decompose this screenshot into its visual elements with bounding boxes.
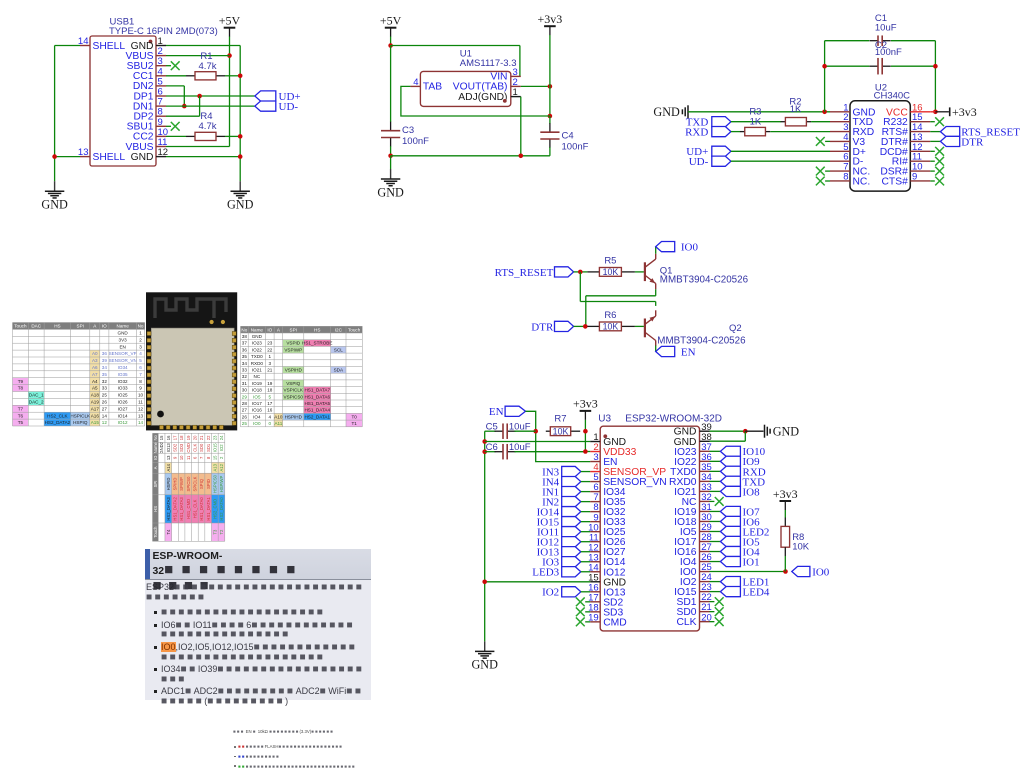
wire right GND rail	[239, 46, 241, 182]
no-connect RI# pin11	[930, 157, 944, 166]
capacitor C1	[870, 35, 891, 46]
no-connect NC pin7	[816, 167, 830, 176]
svg-text:A10: A10	[274, 414, 283, 419]
pin 14 SHELL of USB1	[78, 36, 125, 52]
svg-text:TYPE-C 16PIN 2MD(073): TYPE-C 16PIN 2MD(073)	[109, 26, 218, 37]
svg-text:NC: NC	[682, 497, 697, 508]
svg-text:A4: A4	[92, 379, 98, 384]
pin 13 SHELL of USB1	[78, 147, 125, 163]
svg-text:SHELL: SHELL	[93, 152, 126, 163]
svg-text:T3: T3	[212, 529, 217, 535]
pin 5 DN2 of USB1	[133, 76, 166, 92]
pin 10 IO25 of U3	[588, 522, 626, 538]
wire GND to pin1	[688, 111, 830, 113]
resistor R3	[740, 127, 770, 135]
svg-text:4.7k: 4.7k	[199, 121, 217, 132]
svg-text:GND: GND	[118, 331, 129, 336]
svg-text:SD1: SD1	[676, 597, 696, 608]
svg-text:VSPICLK: VSPICLK	[284, 388, 304, 393]
junction TAB loop	[548, 114, 553, 119]
svg-text:IO2: IO2	[542, 587, 559, 599]
no-connect pin9 SBU1	[166, 122, 180, 131]
no-connect CTS# pin9	[930, 177, 944, 186]
svg-text:6: 6	[139, 365, 142, 370]
label U3 value ESP32-WROOM-32D	[625, 413, 722, 424]
ground (USB right)	[227, 181, 254, 211]
svg-text:GND: GND	[674, 437, 697, 448]
wire C3 bottom	[390, 146, 392, 156]
svg-text:HSPICS0: HSPICS0	[212, 474, 217, 493]
net flag IO8 (U3 pin 33)	[710, 486, 761, 498]
svg-text:IO17: IO17	[674, 537, 697, 548]
label USB1 refdes	[110, 17, 135, 28]
svg-text:0: 0	[269, 421, 272, 426]
svg-text:23: 23	[267, 341, 273, 346]
pin 3 RXD of U2	[830, 122, 874, 138]
svg-text:SPI: SPI	[153, 481, 158, 488]
svg-text:HSPICLK: HSPICLK	[70, 413, 91, 418]
pin 15 GND of U3	[588, 572, 626, 588]
svg-text:21: 21	[267, 368, 273, 373]
svg-text:IO23: IO23	[252, 341, 262, 346]
wire cap bottom rail	[825, 65, 936, 67]
connector USB1 TYPE-C body	[90, 36, 156, 166]
wire cross B (RTS to Q2 emitter)	[580, 272, 655, 306]
wire RXD to R3	[731, 131, 740, 133]
net flag UD- (CH340)	[689, 156, 731, 168]
net flag IO5 (U3 pin 28)	[710, 536, 761, 548]
net flag IN2 (U3 pin 7)	[542, 497, 590, 509]
wire C3 top	[390, 46, 392, 123]
svg-text:17: 17	[267, 401, 273, 406]
svg-text:10K: 10K	[792, 542, 810, 553]
label R3	[749, 106, 761, 117]
pin 13 IO14 of U3	[588, 552, 626, 568]
resistor R2	[781, 118, 811, 126]
svg-text:EN: EN	[119, 344, 125, 349]
net flag IO3 (U3 pin 13)	[542, 557, 590, 569]
svg-text:I2C: I2C	[335, 327, 343, 332]
svg-text:21: 21	[199, 435, 204, 440]
junction +5V node	[388, 43, 393, 48]
svg-text:DTR: DTR	[531, 321, 554, 333]
svg-text:HS1_CMD: HS1_CMD	[186, 499, 191, 519]
wire pin4 CC1 to R1	[166, 75, 186, 77]
wire +5V to VIN	[391, 46, 520, 77]
svg-text:A18: A18	[91, 393, 100, 398]
svg-text:IO17: IO17	[252, 401, 262, 406]
svg-text:+5V: +5V	[380, 14, 402, 28]
svg-text:33: 33	[102, 386, 108, 391]
label Q1 value MMBT3904-C20526	[660, 274, 749, 285]
svg-text:HS: HS	[314, 327, 320, 332]
svg-text:IO: IO	[267, 327, 272, 332]
svg-text:Name: Name	[153, 442, 158, 454]
net flag RTS_RESET	[940, 127, 1020, 139]
svg-text:IO25: IO25	[118, 393, 128, 398]
net flag IN4 (U3 pin 5)	[542, 476, 590, 488]
net flag IO11 (U3 pin 10)	[537, 527, 590, 539]
svg-text:IO2: IO2	[680, 577, 697, 588]
pin 12 IO27 of U3	[588, 542, 626, 558]
wire DTR# to flag	[930, 140, 940, 142]
no-connect pin 21 SD0	[710, 607, 724, 616]
svg-text:IO8: IO8	[743, 486, 761, 498]
svg-text:DAC_2: DAC_2	[29, 400, 44, 405]
svg-text:DTR#: DTR#	[881, 137, 908, 148]
svg-text:SPI: SPI	[77, 324, 84, 329]
pin 9 SBU1 of USB1	[127, 117, 166, 133]
svg-text:22: 22	[267, 347, 273, 352]
svg-text:CLK: CLK	[192, 444, 197, 452]
svg-text:SD2: SD2	[173, 443, 178, 452]
no-connect NC pin8	[816, 177, 830, 186]
wire pin2 VBUS	[166, 55, 230, 57]
svg-text:C3: C3	[402, 125, 414, 136]
label Q1	[660, 266, 673, 277]
resistor R8 (vertical)	[781, 526, 790, 556]
svg-text:10K: 10K	[603, 267, 619, 277]
svg-text:14: 14	[912, 122, 923, 133]
svg-text:AMS1117-3.3: AMS1117-3.3	[460, 58, 517, 69]
svg-text:26: 26	[242, 414, 248, 419]
svg-text:SDA: SDA	[334, 368, 344, 373]
svg-text:A13: A13	[212, 463, 217, 471]
junction RTS_RESET	[578, 270, 583, 275]
net flag IO10 (U3 pin 37)	[710, 446, 766, 458]
junction pin1 gnd	[482, 439, 487, 444]
label U1 value AMS1117-3.3	[460, 58, 517, 69]
svg-text:GND: GND	[252, 334, 263, 339]
svg-text:A17: A17	[91, 406, 100, 411]
svg-text:15: 15	[212, 455, 217, 460]
no-connect V3 pin4	[816, 137, 830, 146]
svg-text:MMBT3904-C20526: MMBT3904-C20526	[657, 336, 746, 347]
wire UD- to D-	[731, 160, 830, 162]
net flag RXD	[685, 127, 731, 139]
pin 6 DP1 of USB1	[133, 87, 166, 103]
net flag TXD (U3 pin 34)	[710, 476, 766, 488]
no-connect DCD# pin12	[930, 147, 944, 156]
svg-text:SPIQ: SPIQ	[199, 478, 204, 489]
svg-text:28: 28	[242, 401, 248, 406]
junction EN/C5/R7	[533, 429, 538, 434]
label R4	[200, 111, 212, 122]
svg-text:IO16: IO16	[252, 408, 262, 413]
svg-text:IO35: IO35	[118, 372, 128, 377]
pin 10 DSR# of U2	[880, 162, 930, 178]
svg-text:25: 25	[242, 421, 248, 426]
wire pin12 GND	[166, 156, 240, 158]
label U1 refdes	[460, 49, 472, 60]
power +3v3 (regulator)	[538, 12, 563, 35]
svg-text:Name: Name	[251, 327, 264, 332]
svg-text:VCC: VCC	[886, 107, 908, 118]
label C1	[875, 13, 887, 24]
label R6	[604, 310, 616, 321]
net flag IO13 (U3 pin 12)	[537, 547, 591, 559]
net flag IO12 (U3 pin 11)	[537, 537, 591, 549]
svg-text:HS1_DATA2: HS1_DATA2	[173, 497, 178, 521]
svg-text:32: 32	[102, 379, 108, 384]
pin 34 RXD0 of U3	[669, 472, 712, 488]
svg-text:10K: 10K	[603, 322, 619, 332]
label U3 refdes	[598, 413, 611, 424]
svg-text:11: 11	[186, 455, 191, 460]
svg-text:GND: GND	[773, 425, 800, 439]
pin 35 TXD0 of U3	[670, 462, 712, 478]
label R1 value 4.7k	[199, 61, 217, 72]
wire R4 to GND rail	[225, 135, 240, 137]
svg-text:8: 8	[843, 171, 848, 182]
pin 8 DP2 of USB1	[133, 107, 166, 123]
svg-text:+3v3: +3v3	[952, 105, 977, 119]
wire cap left rail	[825, 41, 870, 112]
svg-text:HS1_DATA5: HS1_DATA5	[304, 401, 330, 406]
svg-text:25: 25	[102, 393, 108, 398]
wire pin38 GND	[710, 431, 746, 441]
svg-text:18: 18	[267, 388, 273, 393]
label C3	[402, 125, 414, 136]
net flag DTR (Q)	[531, 321, 573, 333]
ground (CH340 GND pin)	[653, 105, 688, 119]
svg-text:LED4: LED4	[743, 587, 770, 599]
label C6	[486, 442, 498, 453]
svg-text:T8: T8	[18, 386, 24, 391]
svg-text:HS2_DATA0: HS2_DATA0	[219, 497, 224, 521]
capacitor C2	[870, 58, 891, 74]
svg-text:IO27: IO27	[118, 406, 128, 411]
svg-text:GND: GND	[41, 198, 68, 212]
wire pin8 DP2 link	[166, 96, 200, 116]
pin 24 IO2 of U3	[680, 572, 712, 588]
wire pin39 GND	[710, 430, 746, 432]
pin 21 SD0 of U3	[676, 602, 711, 618]
svg-text:A5: A5	[92, 386, 98, 391]
svg-text:No: No	[241, 327, 247, 332]
svg-text:16: 16	[267, 408, 273, 413]
svg-text:1: 1	[269, 354, 272, 359]
wire cap top rail right	[891, 41, 935, 112]
label U2 refdes	[875, 83, 887, 94]
svg-text:RXD0: RXD0	[669, 477, 697, 488]
net flag IO6 (U3 pin 30)	[710, 516, 761, 528]
svg-text:15: 15	[159, 435, 164, 440]
svg-text:NC.: NC.	[853, 176, 871, 187]
svg-text:SENSOR_VN: SENSOR_VN	[108, 358, 136, 363]
svg-text:SPID: SPID	[206, 479, 211, 489]
svg-text:16: 16	[166, 435, 171, 440]
junction C2 right	[933, 64, 938, 69]
svg-text:UD-: UD-	[689, 156, 709, 168]
junction R7/+3v3	[583, 429, 588, 434]
svg-text:100nF: 100nF	[562, 141, 589, 152]
tiny footnote text block	[233, 729, 403, 774]
svg-text:T9: T9	[18, 379, 24, 384]
svg-text:8: 8	[139, 379, 142, 384]
svg-text:HSPIHD: HSPIHD	[285, 414, 303, 419]
pin 4 V3 of U2	[830, 132, 865, 148]
svg-text:C4: C4	[562, 131, 574, 142]
wire SHELL pins to left GND	[55, 46, 80, 182]
svg-text:10K: 10K	[553, 426, 569, 436]
net flag LED1 (U3 pin 24)	[710, 576, 770, 588]
svg-text:RXD: RXD	[685, 127, 708, 139]
junction pin15 gnd	[482, 580, 487, 585]
svg-text:IO13: IO13	[166, 443, 171, 453]
label R2 value 1K	[790, 104, 802, 115]
svg-text:34: 34	[102, 365, 108, 370]
svg-text:IO23: IO23	[674, 447, 697, 458]
wire DTR to R6	[574, 325, 588, 327]
pinout image: left pin table	[13, 323, 145, 427]
svg-text:13: 13	[912, 132, 923, 143]
junction C6 left	[482, 449, 487, 454]
net flag IO7 (U3 pin 31)	[710, 506, 761, 518]
svg-text:10uF: 10uF	[509, 422, 531, 433]
pin 3 SBU2 of USB1	[127, 56, 166, 72]
pinout image: bottom rotated pin table	[153, 433, 225, 541]
svg-text:7: 7	[139, 372, 142, 377]
svg-text:14: 14	[102, 413, 108, 418]
pin 18 SD3 of U3	[588, 602, 623, 618]
svg-text:IO: IO	[153, 455, 158, 460]
wire to right gnd	[745, 430, 763, 432]
svg-text:1: 1	[139, 331, 142, 336]
svg-text:27: 27	[242, 408, 248, 413]
svg-text:SD0: SD0	[676, 607, 696, 618]
resistor R6	[587, 322, 635, 332]
power +5V (regulator)	[380, 14, 402, 37]
svg-text:HS1_DATA4: HS1_DATA4	[304, 408, 330, 413]
label Q2	[729, 323, 742, 334]
wire RTS_RESET to R5	[574, 271, 588, 273]
net flag RXD (U3 pin 35)	[710, 466, 766, 478]
svg-text:37: 37	[242, 341, 248, 346]
junction VCC node	[933, 110, 938, 115]
svg-text:HS1_DATA1: HS1_DATA1	[206, 497, 211, 521]
svg-text:HSPIWP: HSPIWP	[219, 476, 224, 493]
svg-text:10: 10	[179, 455, 184, 460]
transistor Q1 MMBT3904	[645, 254, 656, 290]
pin 11 RI# of U2	[892, 152, 931, 168]
svg-text:10: 10	[912, 162, 923, 173]
svg-text:SPICS0: SPICS0	[186, 476, 191, 492]
svg-text:SPIWP: SPIWP	[179, 477, 184, 491]
svg-text:15: 15	[912, 112, 923, 123]
regulator U1 body	[420, 71, 510, 106]
wire pin7 DN1 to UD-	[166, 105, 255, 107]
svg-text:HS2_CMD: HS2_CMD	[212, 499, 217, 519]
pin 8 IO32 of U3	[590, 502, 626, 518]
svg-text:SCL: SCL	[334, 347, 343, 352]
junction DN1/DN2	[182, 104, 187, 109]
wire R6 to Q2 base	[635, 325, 644, 327]
pin 26 IO4 of U3	[680, 552, 712, 568]
svg-text:29: 29	[242, 394, 248, 399]
svg-text:T5: T5	[18, 420, 24, 425]
pin 13 DTR# of U2	[881, 132, 930, 148]
pin 3 EN of U3	[590, 452, 617, 468]
pin 37 IO23 of U3	[674, 442, 712, 458]
pin 3 VIN of U1	[490, 67, 520, 83]
wire TXD to R2	[731, 121, 781, 123]
label R4 value 4.7k	[199, 121, 217, 132]
svg-text:32: 32	[242, 374, 248, 379]
pin 2 VDD33 of U3	[590, 442, 636, 458]
svg-text:Touch: Touch	[348, 327, 361, 332]
power +3v3 (R7)	[573, 397, 598, 420]
label C4	[562, 131, 574, 142]
pin 16 IO13 of U3	[588, 582, 626, 598]
pin 9 IO33 of U3	[590, 512, 626, 528]
net flag LED3 (U3 pin 14)	[532, 567, 590, 579]
svg-text:GND: GND	[131, 152, 154, 163]
svg-text:GND: GND	[227, 198, 254, 212]
label R5	[604, 256, 616, 267]
svg-text:26: 26	[102, 400, 108, 405]
pin 5 D+ of U2	[830, 142, 866, 158]
svg-text:NC: NC	[254, 374, 261, 379]
label R2	[789, 97, 801, 108]
no-connect pin 20 CLK	[710, 617, 724, 626]
svg-text:IO0: IO0	[812, 566, 830, 578]
label C6 value 10uF	[509, 442, 531, 453]
wire TAB loop	[401, 86, 550, 116]
pinout image: ESP32 module photo	[146, 292, 237, 430]
resistor R1	[186, 72, 225, 80]
svg-text:IO0: IO0	[253, 421, 261, 426]
svg-text:39: 39	[102, 358, 108, 363]
svg-text:HS1_CLK: HS1_CLK	[192, 499, 197, 518]
pin 19 CMD of U3	[588, 612, 627, 628]
wire +3v3 to R7/VDD33	[585, 420, 590, 452]
svg-text:19: 19	[267, 381, 273, 386]
wire R2 to pin2	[811, 121, 830, 123]
svg-text:IO1: IO1	[743, 556, 760, 568]
svg-text:IO4: IO4	[680, 557, 697, 568]
svg-text:IO5: IO5	[253, 394, 261, 399]
svg-text:VSPIQ: VSPIQ	[286, 381, 300, 386]
svg-text:T1: T1	[351, 421, 357, 426]
pin 11 VBUS of USB1	[125, 137, 167, 153]
svg-text:19: 19	[186, 435, 191, 440]
svg-text:IO33: IO33	[118, 386, 128, 391]
svg-text:IO0: IO0	[681, 242, 699, 254]
pin 14 RTS# of U2	[882, 122, 931, 138]
svg-text:RI#: RI#	[892, 157, 908, 168]
svg-text:11: 11	[912, 152, 922, 163]
svg-text:4: 4	[139, 351, 142, 356]
pin 7 NC. of U2	[830, 162, 870, 178]
pin 1 GND of USB1	[131, 36, 166, 52]
net flag LED2 (U3 pin 29)	[710, 526, 770, 538]
svg-text:SENSOR_VP: SENSOR_VP	[109, 351, 137, 356]
wire UD+ to D+	[731, 150, 830, 152]
svg-text:IO34: IO34	[118, 365, 128, 370]
label R1	[200, 51, 212, 62]
junction R4/GND rail	[238, 134, 243, 139]
junction DP1/DP2	[197, 94, 202, 99]
label USB1 value	[109, 26, 218, 37]
IC U3 ESP32-WROOM-32D body	[600, 426, 699, 631]
svg-text:SPICLK: SPICLK	[192, 476, 197, 491]
pin 1 GND of U2	[830, 102, 875, 118]
svg-text:HS2_CLK: HS2_CLK	[47, 413, 68, 418]
svg-text:IO18: IO18	[252, 388, 262, 393]
wire Q1 collector to IO0	[655, 247, 657, 254]
pin 6 D- of U2	[830, 152, 863, 168]
